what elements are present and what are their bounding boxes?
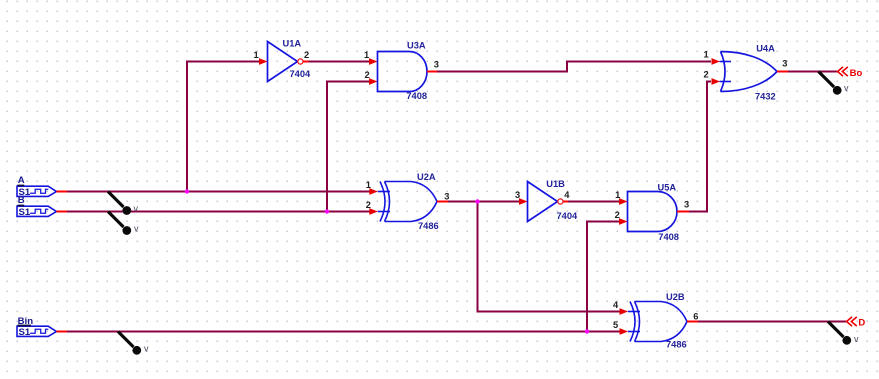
wire U2A output to U1B input bbox=[448, 201, 520, 203]
U2A input arrow pin 2 bbox=[369, 208, 378, 215]
U1A triangle body bbox=[268, 42, 298, 82]
svg-text:2: 2 bbox=[366, 200, 371, 210]
svg-text:3: 3 bbox=[515, 190, 520, 200]
U2A input arrow pin 1 bbox=[369, 188, 378, 195]
svg-text:7404: 7404 bbox=[290, 69, 312, 79]
wire branch net B up to U3A pin 2 bbox=[327, 82, 370, 212]
wire net Bin horizontal to U2B pin 5 bbox=[67, 331, 620, 333]
svg-text:U2A: U2A bbox=[417, 172, 436, 182]
U5A output pin stub bbox=[677, 211, 689, 213]
svg-text:3: 3 bbox=[684, 200, 689, 210]
source Bin output pin stub bbox=[56, 331, 67, 333]
U3A input arrow pin 2 bbox=[369, 78, 378, 85]
wire U2B output to connector D bbox=[698, 321, 846, 323]
svg-text:U3A: U3A bbox=[407, 41, 426, 51]
wire U5A output up to U4A pin 2 bbox=[689, 82, 711, 212]
wire U1A output to U3A pin 1 bbox=[309, 61, 371, 63]
U2B second input arc bbox=[635, 302, 640, 342]
svg-text:7408: 7408 bbox=[406, 91, 427, 101]
U1A output bubble bbox=[298, 59, 303, 64]
digital source S1 (input A) bbox=[17, 175, 67, 198]
svg-text:v: v bbox=[134, 204, 139, 214]
svg-text:1: 1 bbox=[704, 50, 709, 60]
source A body bbox=[17, 186, 56, 196]
U3A body bbox=[378, 52, 428, 92]
off-page connector D bbox=[847, 317, 866, 328]
U4A pin 2 lead bbox=[720, 81, 732, 83]
U2A pin 2 lead bbox=[378, 211, 390, 213]
wire net B horizontal to U2A pin 2 bbox=[67, 211, 371, 213]
U1B triangle body bbox=[528, 182, 558, 222]
source A waveform glyph bbox=[30, 189, 48, 193]
U1B output bubble bbox=[558, 199, 563, 204]
Bo chevron inner bbox=[842, 67, 847, 76]
XOR gate U2A (7486) bbox=[366, 172, 450, 231]
svg-text:3: 3 bbox=[434, 60, 439, 70]
svg-text:4: 4 bbox=[564, 190, 570, 200]
wire branch U2A output down to U2B pin 4 bbox=[478, 202, 621, 312]
probe Bo ball bbox=[833, 86, 842, 95]
junction on U2A output net at U2B branch bbox=[475, 199, 479, 203]
svg-text:D: D bbox=[858, 317, 865, 328]
svg-text:A: A bbox=[18, 175, 25, 186]
svg-text:U4A: U4A bbox=[756, 43, 775, 53]
U2A second input arc bbox=[385, 182, 390, 222]
U4A pin 1 lead bbox=[720, 61, 732, 63]
svg-text:U1B: U1B bbox=[546, 179, 565, 189]
U4A input arrow pin 1 bbox=[712, 58, 721, 65]
source Bin waveform glyph bbox=[30, 329, 48, 333]
svg-text:2: 2 bbox=[704, 70, 709, 80]
U4A body bbox=[721, 52, 778, 92]
svg-text:Bo: Bo bbox=[850, 68, 863, 79]
junction on net B at U3A branch bbox=[325, 209, 329, 213]
svg-text:3: 3 bbox=[444, 192, 449, 202]
U2B pin 5 lead bbox=[628, 331, 640, 333]
U2A body bbox=[385, 182, 438, 222]
svg-text:6: 6 bbox=[693, 312, 698, 322]
probe B stem bbox=[108, 212, 124, 228]
svg-text:v: v bbox=[844, 83, 849, 93]
voltage probe on net D bbox=[828, 322, 859, 345]
svg-text:1: 1 bbox=[364, 50, 369, 60]
svg-text:7486: 7486 bbox=[666, 339, 687, 349]
probe B ball bbox=[122, 226, 131, 235]
U1A output pin stub bbox=[303, 61, 309, 63]
U3A input arrow pin 1 bbox=[369, 58, 378, 65]
inverter U1B (7404) bbox=[515, 179, 578, 221]
svg-text:5: 5 bbox=[613, 320, 618, 330]
svg-text:7408: 7408 bbox=[658, 232, 679, 242]
svg-text:7486: 7486 bbox=[418, 221, 439, 231]
junction on net Bin at U5A branch bbox=[585, 329, 589, 333]
wire branch net A up to U1A input bbox=[187, 62, 260, 192]
U2A pin 1 lead bbox=[378, 191, 390, 193]
svg-text:S1: S1 bbox=[19, 207, 31, 218]
U2B output pin stub bbox=[687, 321, 698, 323]
digital source S1 (input Bin) bbox=[17, 316, 67, 338]
D chevron outer bbox=[847, 317, 852, 326]
source Bin body bbox=[17, 326, 56, 336]
svg-text:2: 2 bbox=[365, 70, 370, 80]
svg-text:S1: S1 bbox=[19, 327, 31, 338]
AND gate U5A (7408) bbox=[615, 183, 690, 242]
junction on net A at U1A branch bbox=[185, 189, 189, 193]
U4A rear input arc bbox=[721, 52, 726, 92]
wire branch net Bin up to U5A pin 2 bbox=[587, 222, 620, 332]
D chevron inner bbox=[851, 317, 856, 326]
U1A input arrow pin 1 bbox=[259, 58, 268, 65]
digital source S1 (input B) bbox=[17, 195, 67, 218]
voltage probe on net A bbox=[108, 192, 139, 215]
probe Bin stem bbox=[118, 332, 134, 348]
U5A input arrow pin 1 bbox=[619, 198, 628, 205]
off-page connector Bo bbox=[838, 67, 863, 79]
probe Bin ball bbox=[132, 346, 141, 355]
U2B body bbox=[635, 302, 688, 342]
svg-text:2: 2 bbox=[615, 210, 620, 220]
U1B output pin stub bbox=[563, 201, 568, 203]
U2A output pin stub bbox=[437, 201, 448, 203]
U5A input arrow pin 2 bbox=[619, 218, 628, 225]
source B waveform glyph bbox=[30, 209, 48, 213]
svg-text:2: 2 bbox=[304, 50, 309, 60]
voltage probe on net B bbox=[108, 212, 139, 235]
AND gate U3A (7408) bbox=[364, 41, 439, 102]
svg-text:v: v bbox=[854, 334, 859, 344]
XOR gate U2B (7486) bbox=[613, 292, 698, 350]
U2B pin 4 lead bbox=[628, 311, 640, 313]
U1B input arrow pin 3 bbox=[519, 198, 528, 205]
svg-text:1: 1 bbox=[366, 180, 371, 190]
U4A input arrow pin 2 bbox=[712, 78, 721, 85]
U5A body bbox=[628, 192, 678, 232]
wire U1B output to U5A pin 1 bbox=[568, 201, 620, 203]
wire net A horizontal to U2A pin 1 bbox=[67, 191, 371, 193]
source B key bar bbox=[17, 205, 24, 207]
U2B rear input arc bbox=[630, 302, 635, 342]
svg-text:Bin: Bin bbox=[18, 316, 34, 327]
svg-text:1: 1 bbox=[615, 190, 620, 200]
inverter U1A (7404) bbox=[254, 39, 312, 82]
wire U4A output to connector Bo bbox=[788, 71, 837, 73]
svg-text:U1A: U1A bbox=[283, 39, 302, 49]
voltage probe on net Bo bbox=[819, 72, 850, 95]
probe Bo stem bbox=[819, 72, 835, 88]
svg-text:U2B: U2B bbox=[666, 292, 685, 302]
svg-text:v: v bbox=[144, 344, 149, 354]
U2B input arrow pin 4 bbox=[620, 308, 629, 315]
probe A stem bbox=[108, 192, 124, 208]
svg-text:1: 1 bbox=[254, 50, 259, 60]
svg-text:v: v bbox=[134, 224, 139, 234]
probe A ball bbox=[122, 206, 131, 215]
U4A output pin stub bbox=[777, 71, 788, 73]
U3A output pin stub bbox=[427, 71, 437, 73]
wire U3A output to U4A pin 1 bbox=[437, 62, 711, 72]
source B output pin stub bbox=[56, 211, 67, 213]
U2B input arrow pin 5 bbox=[620, 328, 629, 335]
svg-text:7432: 7432 bbox=[755, 91, 776, 101]
source Bin key bar bbox=[17, 325, 31, 327]
U2A rear input arc bbox=[380, 182, 385, 222]
svg-text:U5A: U5A bbox=[658, 183, 677, 193]
probe D ball bbox=[842, 336, 851, 345]
svg-text:4: 4 bbox=[613, 300, 619, 310]
Bo chevron outer bbox=[838, 67, 843, 76]
OR gate U4A (7432) bbox=[704, 43, 789, 101]
svg-text:3: 3 bbox=[782, 59, 787, 69]
source B body bbox=[17, 206, 56, 216]
svg-text:7404: 7404 bbox=[557, 211, 579, 221]
probe D stem bbox=[828, 322, 844, 338]
source A output pin stub bbox=[56, 191, 67, 193]
svg-text:B: B bbox=[18, 195, 25, 206]
source A key bar bbox=[17, 185, 24, 187]
voltage probe on net Bin bbox=[118, 332, 149, 355]
